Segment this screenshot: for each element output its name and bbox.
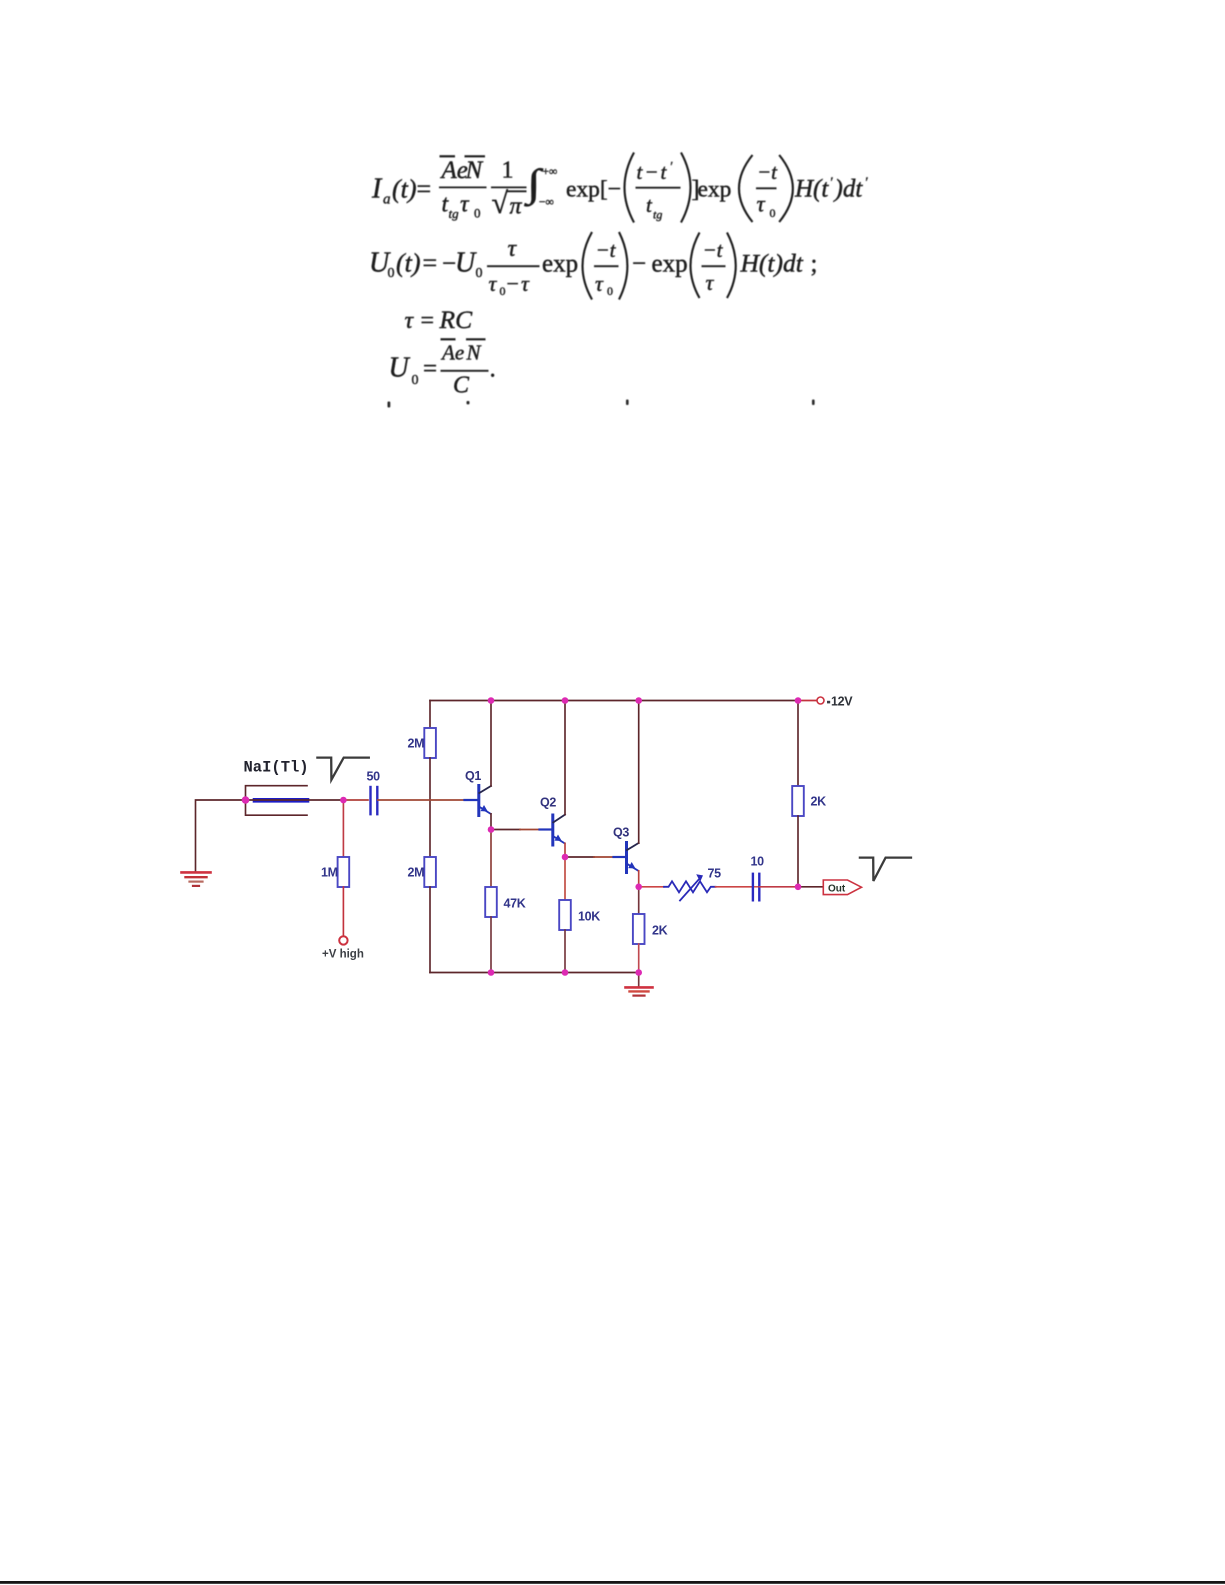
svg-text:;: ;: [811, 251, 818, 278]
svg-text:−: −: [442, 251, 456, 278]
svg-text:−t: −t: [757, 160, 778, 184]
wire node E2 to Q3 base: [565, 856, 613, 858]
cropped text fragment marks: [388, 400, 815, 408]
value label 10K: [578, 910, 600, 924]
svg-text:Ae: Ae: [440, 157, 468, 184]
wire ground bottom rail: [430, 972, 639, 974]
svg-text:exp[: exp[: [566, 177, 608, 203]
power terminal +V high: [322, 936, 364, 960]
wire top rail stub to +12V terminal: [798, 700, 816, 702]
ground (output stage): [626, 987, 653, 995]
input pulse waveform symbol: [317, 758, 368, 780]
wire Q1 collector to top rail: [490, 701, 492, 787]
resistor R 47K: [485, 887, 497, 917]
svg-text:0: 0: [388, 266, 395, 281]
wire Q3 collector to top rail: [638, 701, 640, 844]
wire Q3 emitter to node OUT1: [638, 871, 640, 887]
junction node bottom rail / 47K: [488, 969, 495, 976]
formula 2: U0(t) output pulse: [369, 232, 817, 300]
svg-text:1M: 1M: [321, 866, 338, 880]
wire top rail to 2K load resistor: [797, 701, 799, 787]
power terminal +12V: [817, 694, 853, 708]
resistor R 10K: [559, 900, 571, 930]
output port Out: [823, 880, 861, 895]
transistor Q1 (NPN): [465, 786, 492, 816]
wire 2M lower to bottom rail: [429, 887, 431, 973]
svg-text:=: =: [423, 355, 437, 382]
transistor Q3 (NPN): [614, 843, 639, 873]
svg-text:exp: exp: [698, 177, 732, 203]
wire Q1 emitter to node E1: [490, 814, 492, 830]
junction node top rail / Q2 collector: [562, 697, 569, 704]
wire node to 1M bias branch (red): [342, 800, 344, 857]
svg-text:τ: τ: [595, 271, 604, 296]
svg-text:I: I: [371, 173, 383, 204]
svg-text:exp: exp: [652, 251, 688, 278]
svg-text:2K: 2K: [811, 795, 827, 809]
wire 10K to bottom rail: [564, 930, 566, 973]
svg-text:τ: τ: [757, 192, 766, 217]
svg-text:Out: Out: [828, 884, 846, 895]
resistor R 1M: [338, 857, 350, 887]
svg-text:C: C: [453, 373, 470, 399]
svg-text:=: =: [417, 174, 432, 203]
wire node E2 to 10K (red): [564, 857, 566, 900]
junction node OUT1 (Q3 emitter): [635, 884, 642, 891]
ground (left, detector shield): [182, 872, 211, 886]
junction node E1 (Q1 emitter): [488, 826, 495, 833]
svg-text:tg: tg: [449, 206, 460, 221]
svg-text:t−t: t−t: [637, 160, 669, 184]
wire output node to Out port: [798, 886, 823, 888]
svg-text:H(t)dt: H(t)dt: [740, 249, 804, 278]
svg-text:50: 50: [367, 770, 381, 784]
svg-text:Q3: Q3: [613, 826, 629, 840]
value label 1M: [321, 866, 338, 880]
wire between 2M upper and 2M lower: [429, 758, 431, 857]
wire bottom rail node to ground: [638, 973, 640, 986]
svg-text:0: 0: [607, 284, 613, 298]
value label 2M lower: [408, 866, 425, 880]
svg-text:1: 1: [502, 158, 514, 184]
svg-text:−∞: −∞: [539, 197, 554, 209]
junction node top rail / Q3 collector: [635, 697, 642, 704]
wire node OUT1 to 2K emitter resistor: [638, 887, 640, 914]
svg-text:0: 0: [476, 266, 483, 281]
svg-text:0: 0: [500, 284, 506, 298]
svg-text:τ: τ: [489, 271, 498, 296]
wire 2K to bottom rail node (red): [638, 944, 640, 973]
wire 2K load to output node: [797, 816, 799, 887]
svg-text:+V high: +V high: [322, 949, 364, 961]
formula 4: U0 = AeN / C: [389, 339, 496, 398]
svg-text:10: 10: [751, 854, 765, 868]
svg-text:2M: 2M: [408, 866, 425, 880]
svg-text:−: −: [608, 177, 622, 203]
label Q2: [540, 796, 556, 810]
svg-text:+∞: +∞: [543, 166, 558, 178]
svg-text:Q1: Q1: [465, 769, 481, 783]
variable resistor 75 (trimmer): [664, 874, 716, 900]
formula 1: Ia(t) definition: [371, 153, 869, 223]
svg-text:0: 0: [412, 373, 419, 388]
CIRCUIT: [182, 694, 912, 995]
value label 75: [708, 867, 722, 881]
junction node output: [795, 884, 802, 891]
wire cap 10 to output node (red): [759, 886, 798, 888]
capacitor C 50 (coupling): [371, 787, 378, 814]
value label 10: [751, 854, 765, 868]
svg-text:τ: τ: [521, 271, 530, 296]
value label 2K emitter: [652, 924, 668, 938]
junction node detector anode: [242, 796, 250, 804]
wire cap 50 to Q1 base: [378, 799, 478, 801]
transistor Q2 (NPN): [540, 815, 566, 845]
svg-text:47K: 47K: [504, 897, 526, 911]
resistor R 2K (load): [792, 786, 804, 816]
svg-text:N: N: [465, 157, 484, 184]
wire node E1 to 47K: [490, 830, 492, 888]
scintillation detector NaI(Tl) tube: [246, 786, 308, 816]
MATH BLOCK: [369, 153, 869, 408]
formula 3: tau = RC: [405, 305, 474, 334]
svg-text:′: ′: [865, 176, 869, 191]
svg-text:√: √: [492, 187, 509, 220]
svg-text:τ: τ: [460, 192, 470, 218]
svg-text:′: ′: [670, 159, 673, 174]
svg-text:2M: 2M: [408, 737, 425, 751]
junction node input / 1M branch: [340, 797, 347, 804]
resistor R 2K (emitter): [633, 914, 645, 944]
wire 1M to +V high terminal (red): [342, 887, 344, 936]
svg-text:tg: tg: [653, 208, 662, 222]
svg-text:N: N: [466, 341, 482, 365]
svg-text:75: 75: [708, 867, 722, 881]
svg-text:.: .: [490, 355, 496, 382]
svg-text:0: 0: [474, 206, 481, 221]
svg-text:−: −: [632, 251, 646, 278]
svg-text:Ae: Ae: [440, 341, 464, 365]
value label 2K load: [811, 795, 827, 809]
wire node OUT1 to trimmer (red): [639, 886, 664, 888]
svg-text:t: t: [646, 193, 653, 217]
resistor R 2M upper: [424, 728, 436, 758]
svg-text:π: π: [510, 194, 523, 220]
wire Q2 collector to top rail: [564, 701, 566, 815]
label Q1: [465, 769, 481, 783]
wire +12V top rail: [430, 700, 798, 702]
svg-text:τ: τ: [508, 236, 518, 262]
svg-text:exp: exp: [542, 251, 578, 278]
svg-text:10K: 10K: [578, 910, 600, 924]
bottom page rule: [0, 1581, 1225, 1584]
svg-text:NaI(Tl): NaI(Tl): [244, 759, 309, 777]
svg-text:)dt: )dt: [833, 176, 864, 203]
svg-text:=: =: [423, 249, 438, 278]
svg-text:0: 0: [770, 206, 776, 220]
svg-text:′: ′: [830, 176, 834, 191]
svg-text:(t): (t): [396, 249, 421, 278]
value label 50: [367, 770, 381, 784]
value label 47K: [504, 897, 526, 911]
wire detector to coupling cap node: [246, 799, 369, 801]
wire left input corner: detector anode to ground drop: [196, 800, 246, 871]
svg-text:H(t: H(t: [794, 176, 829, 203]
svg-text:τ: τ: [405, 308, 415, 334]
wire 47K to bottom rail: [490, 917, 492, 973]
svg-text:U: U: [455, 248, 477, 279]
junction node E2 (Q2 emitter): [562, 854, 569, 861]
svg-text:U: U: [389, 352, 411, 383]
value label 2M upper: [408, 737, 425, 751]
label NaI(Tl): [244, 759, 309, 777]
wire node E1 to Q2 base: [491, 829, 539, 831]
junction node bottom rail / ground: [635, 969, 642, 976]
wire trimmer to cap 10 (red): [716, 886, 759, 888]
wire left feedback vertical from top rail to resistor 2M upper: [429, 701, 431, 729]
output pulse waveform symbol: [860, 858, 911, 881]
svg-text:−t: −t: [703, 238, 724, 262]
capacitor C 10 (output coupling): [753, 874, 759, 901]
svg-text:−: −: [507, 271, 519, 296]
svg-text:−t: −t: [596, 238, 617, 262]
junction node top rail / Q1 collector: [488, 697, 495, 704]
svg-text:12V: 12V: [831, 694, 853, 708]
svg-text:τ: τ: [706, 270, 715, 295]
resistor R 2M lower: [424, 857, 436, 887]
svg-text:2K: 2K: [652, 924, 668, 938]
junction node top rail / 2K load: [795, 697, 802, 704]
svg-text:(t): (t): [392, 174, 417, 203]
svg-text:a: a: [383, 191, 391, 207]
wire Q2 emitter to node E2: [564, 843, 566, 857]
label Q3: [613, 826, 629, 840]
svg-text:=: =: [421, 308, 435, 334]
junction node bottom rail / 10K: [562, 969, 569, 976]
svg-text:Q2: Q2: [540, 796, 556, 810]
svg-text:RC: RC: [439, 305, 474, 334]
